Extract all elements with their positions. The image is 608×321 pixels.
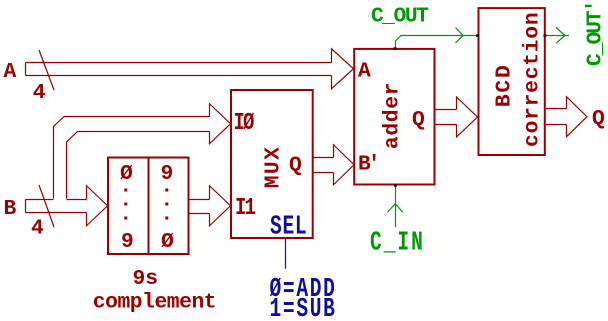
svg-text:Q: Q	[412, 108, 425, 132]
svg-text:Ø: Ø	[120, 162, 133, 186]
svg-text:9: 9	[161, 162, 173, 186]
svg-text:IØ: IØ	[234, 109, 255, 137]
svg-text:Q: Q	[289, 154, 302, 178]
svg-text:1=SUB: 1=SUB	[270, 294, 337, 321]
svg-text:Q: Q	[592, 107, 605, 131]
svg-text:A: A	[358, 60, 371, 84]
svg-text:C_OUT': C_OUT'	[584, 1, 608, 66]
svg-text:SEL: SEL	[270, 212, 307, 243]
svg-text:4: 4	[31, 217, 44, 241]
svg-text:Ø: Ø	[161, 230, 174, 254]
svg-text:MUX: MUX	[262, 146, 286, 189]
svg-text:B: B	[4, 197, 17, 221]
svg-text:A: A	[4, 60, 17, 84]
svg-text:correction: correction	[521, 12, 545, 147]
svg-text:C_OUT: C_OUT	[371, 5, 429, 29]
svg-text:9: 9	[121, 230, 133, 254]
svg-text:4: 4	[33, 81, 46, 105]
svg-text:B': B'	[358, 153, 378, 177]
svg-text:C_IN: C_IN	[370, 228, 425, 259]
svg-text:9s: 9s	[133, 267, 159, 291]
svg-text:complement: complement	[93, 291, 216, 315]
svg-text:adder: adder	[381, 82, 405, 149]
svg-text:I1: I1	[235, 194, 256, 222]
svg-text:BCD: BCD	[493, 64, 517, 108]
